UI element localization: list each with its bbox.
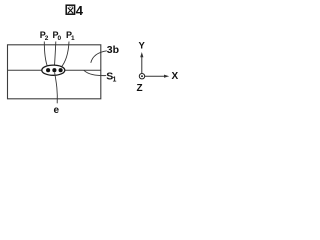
wire leader P1: [61, 42, 69, 68]
body rectangle 3b: [8, 45, 101, 99]
svg-text:1: 1: [71, 35, 75, 42]
wire leader P2: [44, 42, 48, 68]
wire leader S1: [84, 70, 106, 75]
electron dot middle: [52, 68, 56, 72]
axis Y arrow: [140, 52, 143, 73]
ellipse e region: [42, 65, 65, 75]
wire leader 3b: [91, 51, 107, 63]
svg-text:1: 1: [113, 77, 117, 84]
svg-text:0: 0: [58, 35, 62, 42]
title 図4 glyph 図 (drawn box): [66, 5, 74, 14]
svg-text:3b: 3b: [107, 44, 119, 56]
wire leader e: [55, 72, 58, 103]
svg-text:4: 4: [76, 3, 84, 18]
electron dot left: [46, 68, 50, 72]
svg-text:2: 2: [45, 35, 49, 42]
svg-text:Z: Z: [137, 83, 143, 94]
svg-text:Y: Y: [139, 41, 146, 52]
surface line S1 (horizontal mid line): [8, 69, 101, 71]
electron dot right: [59, 68, 63, 72]
svg-text:e: e: [54, 105, 60, 116]
svg-text:X: X: [172, 71, 179, 82]
axis Z origin symbol (circle with dot): [139, 74, 144, 79]
wire leader P0: [54, 42, 55, 68]
axis X arrow: [145, 75, 169, 78]
